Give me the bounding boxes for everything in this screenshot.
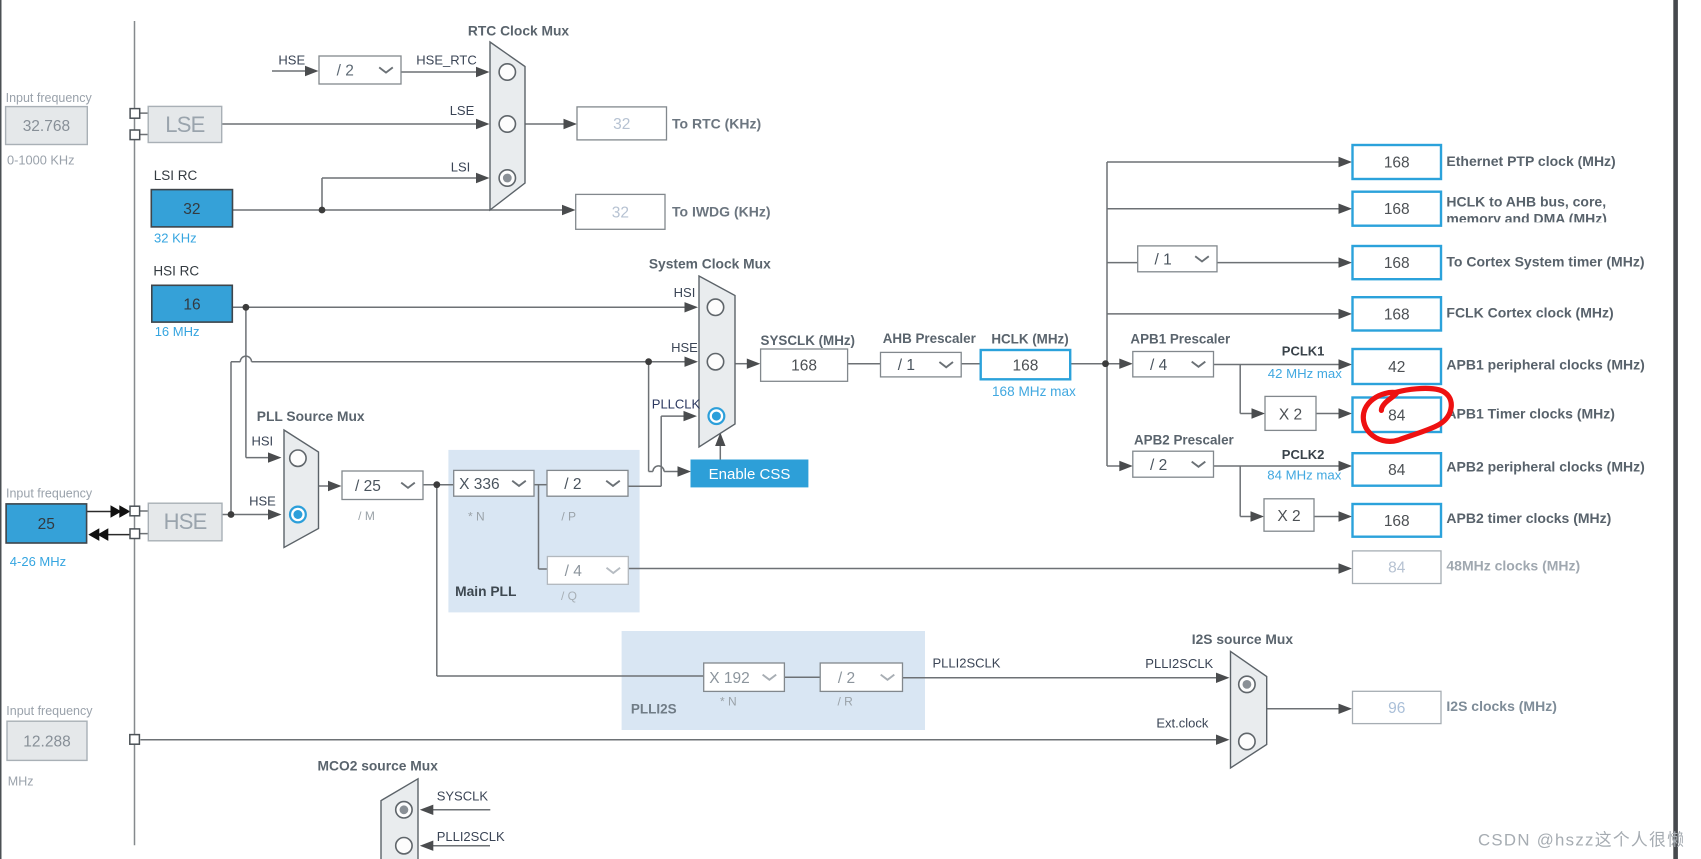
svg-text:System Clock Mux: System Clock Mux — [649, 257, 771, 272]
svg-text:HSI: HSI — [251, 434, 273, 449]
svg-text:APB1 peripheral clocks (MHz): APB1 peripheral clocks (MHz) — [1446, 357, 1644, 373]
svg-text:X 336: X 336 — [459, 476, 500, 493]
svg-text:HSE: HSE — [671, 340, 698, 355]
svg-text:X 192: X 192 — [709, 670, 750, 687]
svg-text:To RTC (KHz): To RTC (KHz) — [672, 116, 761, 132]
svg-text:32: 32 — [183, 201, 200, 218]
svg-text:APB2 peripheral clocks (MHz): APB2 peripheral clocks (MHz) — [1446, 459, 1644, 475]
svg-text:HSE_RTC: HSE_RTC — [416, 53, 476, 68]
svg-text:I2S source Mux: I2S source Mux — [1192, 632, 1294, 647]
svg-text:PLLI2S: PLLI2S — [631, 702, 677, 717]
svg-text:168: 168 — [1384, 306, 1410, 323]
svg-text:HSI RC: HSI RC — [153, 264, 199, 279]
svg-text:* N: * N — [468, 510, 485, 524]
svg-text:HSE: HSE — [278, 53, 305, 68]
svg-text:PCLK2: PCLK2 — [1282, 447, 1325, 462]
svg-text:LSE: LSE — [165, 112, 204, 137]
svg-text:HCLK to AHB bus, core,: HCLK to AHB bus, core, — [1446, 194, 1606, 210]
svg-text:84: 84 — [1388, 407, 1406, 424]
svg-text:/ 2: / 2 — [564, 476, 581, 493]
svg-text:HSI: HSI — [674, 285, 696, 300]
svg-text:42 MHz max: 42 MHz max — [1268, 366, 1342, 381]
svg-text:Main PLL: Main PLL — [455, 584, 516, 599]
svg-text:168: 168 — [791, 358, 817, 375]
svg-text:PLLI2SCLK: PLLI2SCLK — [1145, 656, 1213, 671]
svg-text:16: 16 — [183, 296, 200, 313]
svg-text:Input frequency: Input frequency — [6, 91, 93, 105]
svg-text:32 KHz: 32 KHz — [154, 231, 197, 246]
svg-text:/ P: / P — [561, 510, 576, 524]
svg-text:* N: * N — [720, 695, 737, 709]
svg-text:SYSCLK: SYSCLK — [437, 789, 489, 804]
svg-text:/ 2: / 2 — [1150, 457, 1167, 474]
svg-text:CSDN @hszz这个人很懒: CSDN @hszz这个人很懒 — [1478, 831, 1685, 850]
svg-text:/ 4: / 4 — [565, 563, 583, 580]
svg-text:RTC Clock Mux: RTC Clock Mux — [468, 24, 570, 39]
svg-text:LSI RC: LSI RC — [154, 168, 198, 183]
svg-text:FCLK Cortex clock (MHz): FCLK Cortex clock (MHz) — [1446, 305, 1613, 321]
svg-text:/ 1: / 1 — [1154, 251, 1171, 268]
svg-text:16 MHz: 16 MHz — [155, 324, 200, 339]
svg-text:4-26 MHz: 4-26 MHz — [10, 554, 66, 569]
svg-text:Ext.clock: Ext.clock — [1156, 716, 1209, 731]
svg-text:To Cortex System timer (MHz): To Cortex System timer (MHz) — [1446, 253, 1644, 269]
svg-text:/ 4: / 4 — [1150, 357, 1168, 374]
svg-text:/ Q: / Q — [561, 589, 577, 603]
svg-text:84: 84 — [1388, 462, 1406, 479]
svg-text:/ M: / M — [358, 509, 375, 523]
svg-text:PCLK1: PCLK1 — [1282, 344, 1325, 359]
svg-text:Ethernet PTP clock (MHz): Ethernet PTP clock (MHz) — [1446, 153, 1615, 169]
svg-text:To IWDG (KHz): To IWDG (KHz) — [672, 204, 771, 220]
svg-text:/ 1: / 1 — [898, 357, 915, 374]
svg-text:AHB Prescaler: AHB Prescaler — [883, 331, 977, 346]
svg-text:APB2 Prescaler: APB2 Prescaler — [1134, 433, 1235, 448]
svg-text:X 2: X 2 — [1279, 406, 1302, 423]
svg-text:/ R: / R — [838, 695, 854, 709]
svg-text:/ 25: / 25 — [355, 478, 381, 495]
svg-text:168: 168 — [1384, 201, 1410, 218]
svg-text:84: 84 — [1388, 560, 1406, 577]
svg-text:APB1 Prescaler: APB1 Prescaler — [1130, 332, 1231, 347]
svg-text:PLLI2SCLK: PLLI2SCLK — [933, 656, 1001, 671]
svg-text:HSE: HSE — [249, 494, 276, 509]
svg-text:APB2 timer clocks (MHz): APB2 timer clocks (MHz) — [1446, 510, 1611, 526]
svg-text:Input frequency: Input frequency — [6, 704, 93, 718]
svg-text:I2S clocks (MHz): I2S clocks (MHz) — [1446, 698, 1556, 714]
svg-text:HSE: HSE — [164, 509, 207, 534]
svg-text:32.768: 32.768 — [23, 118, 70, 135]
svg-text:168 MHz max: 168 MHz max — [992, 384, 1076, 399]
svg-text:PLLCLK: PLLCLK — [652, 396, 701, 411]
svg-text:LSI: LSI — [451, 160, 471, 175]
svg-text:84 MHz max: 84 MHz max — [1267, 468, 1341, 483]
svg-text:32: 32 — [612, 204, 629, 221]
svg-text:0-1000 KHz: 0-1000 KHz — [7, 153, 75, 168]
svg-text:25: 25 — [38, 516, 55, 533]
svg-text:HCLK (MHz): HCLK (MHz) — [991, 332, 1068, 347]
svg-text:96: 96 — [1388, 700, 1405, 717]
svg-text:168: 168 — [1384, 155, 1410, 172]
svg-text:/ 2: / 2 — [838, 670, 855, 687]
svg-text:MCO2 source Mux: MCO2 source Mux — [318, 759, 439, 774]
svg-text:X 2: X 2 — [1277, 508, 1300, 525]
svg-text:42: 42 — [1388, 359, 1405, 376]
svg-text:168: 168 — [1384, 513, 1410, 530]
svg-text:APB1 Timer clocks (MHz): APB1 Timer clocks (MHz) — [1446, 406, 1615, 422]
svg-text:/ 2: / 2 — [337, 63, 354, 80]
svg-text:PLL Source Mux: PLL Source Mux — [257, 409, 365, 424]
svg-text:168: 168 — [1012, 357, 1038, 374]
svg-text:LSE: LSE — [450, 103, 475, 118]
svg-text:32: 32 — [613, 116, 630, 133]
svg-text:Enable CSS: Enable CSS — [709, 466, 791, 483]
svg-text:SYSCLK (MHz): SYSCLK (MHz) — [761, 333, 855, 348]
svg-text:48MHz clocks (MHz): 48MHz clocks (MHz) — [1446, 558, 1580, 574]
svg-text:168: 168 — [1384, 255, 1410, 272]
svg-text:PLLI2SCLK: PLLI2SCLK — [437, 829, 505, 844]
svg-text:Input frequency: Input frequency — [6, 487, 93, 501]
svg-text:12.288: 12.288 — [23, 734, 70, 751]
svg-text:MHz: MHz — [8, 775, 34, 789]
